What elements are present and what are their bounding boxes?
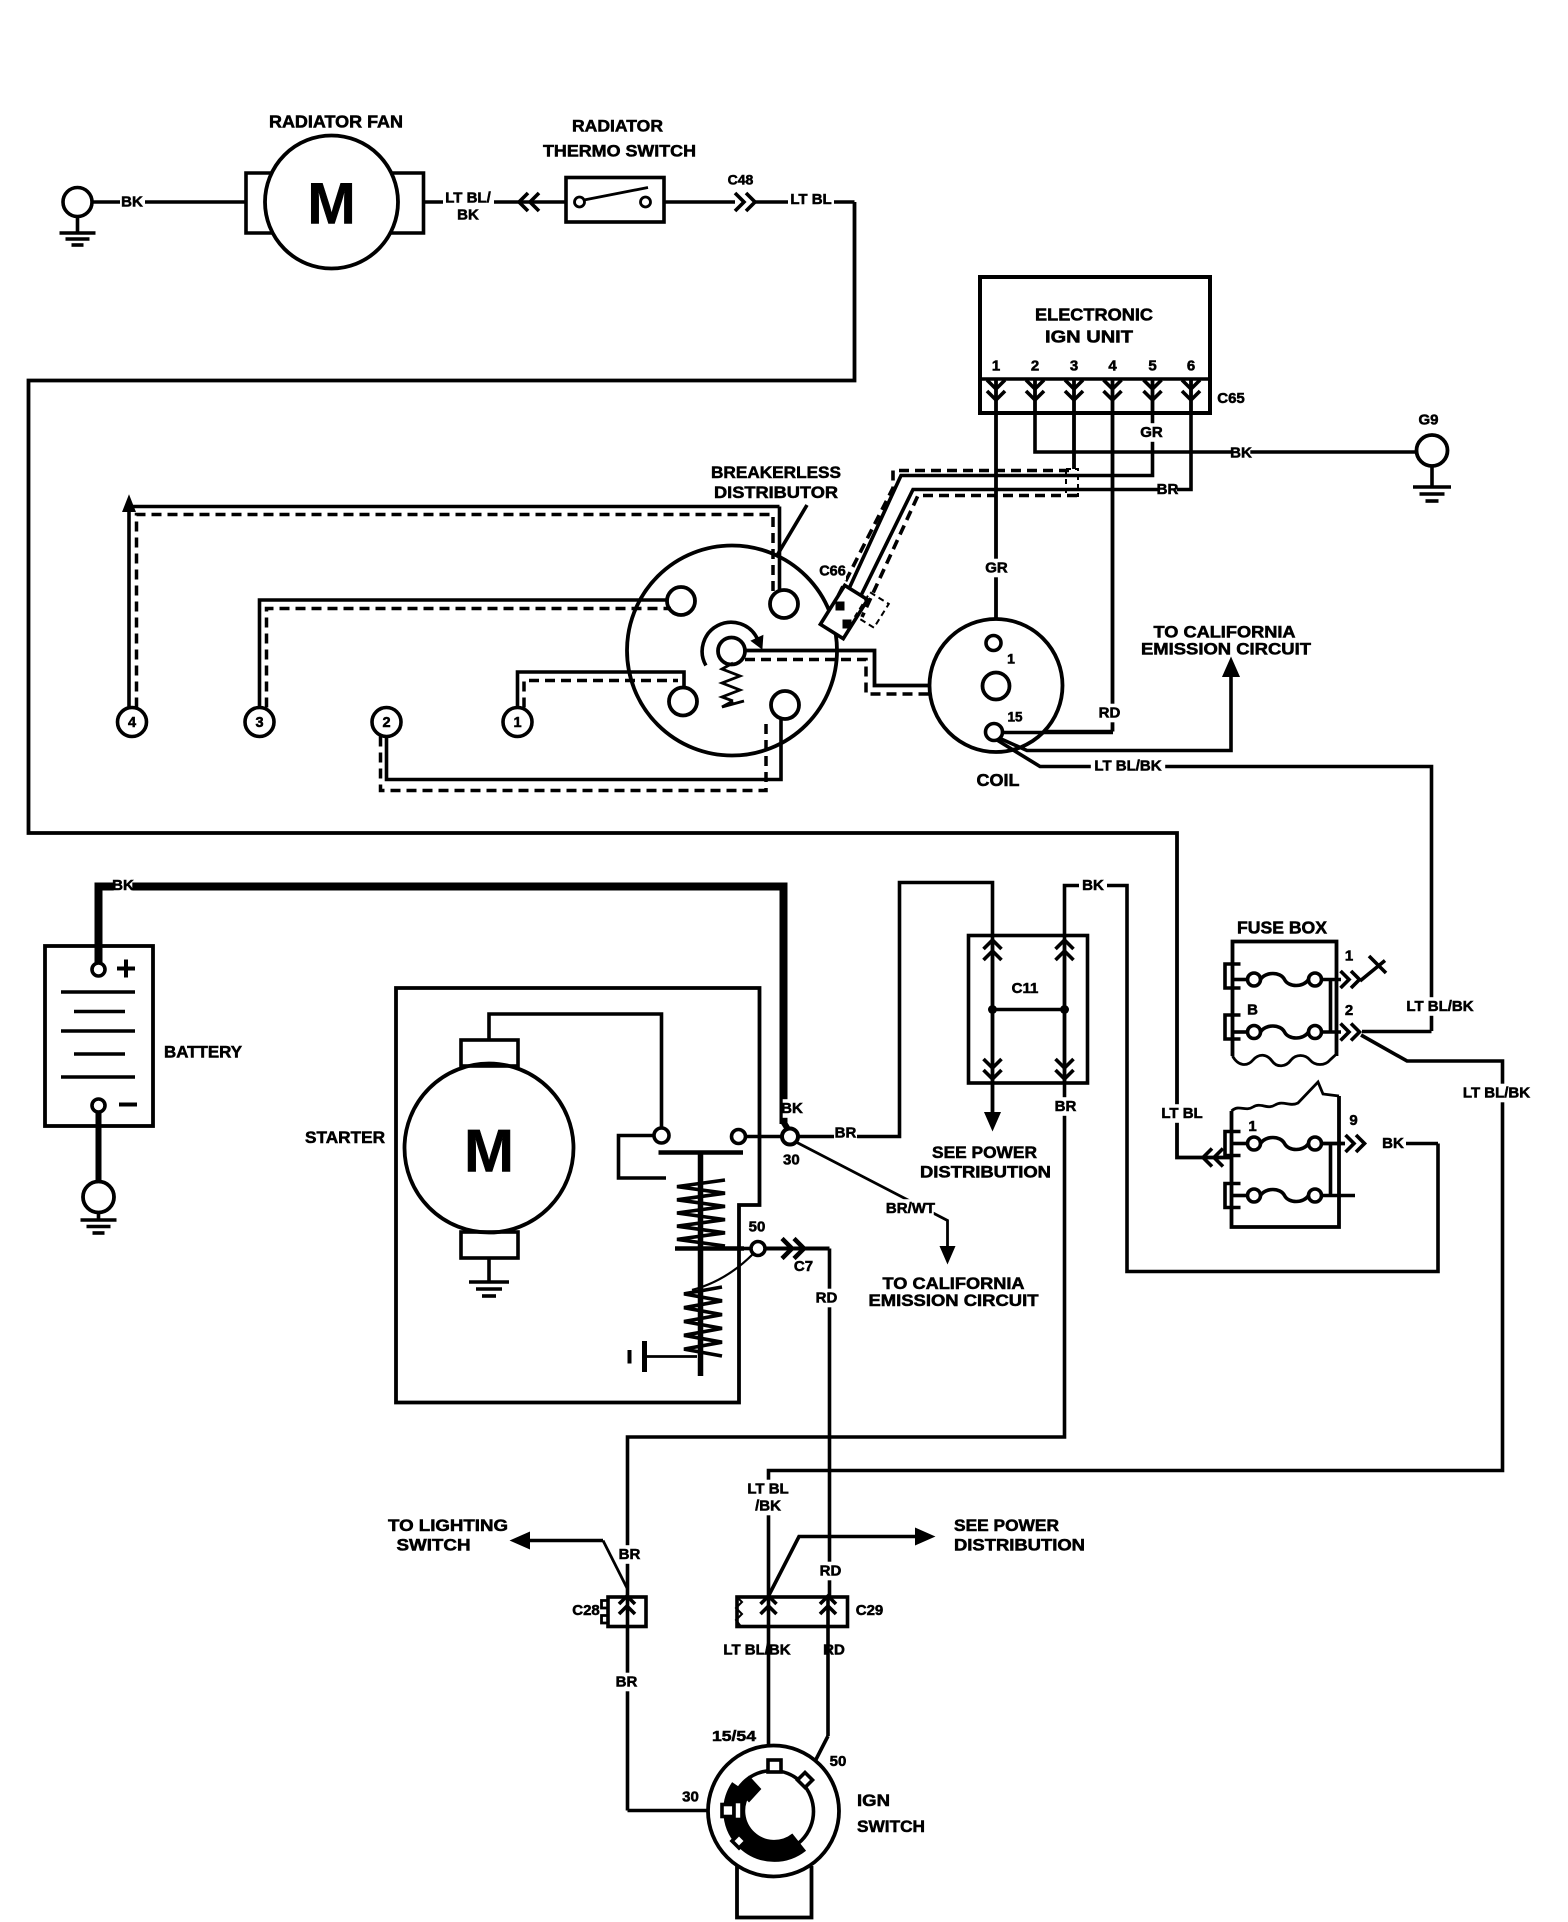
svg-text:LT BL: LT BL xyxy=(747,1481,788,1498)
svg-text:EMISSION CIRCUIT: EMISSION CIRCUIT xyxy=(1141,641,1311,659)
svg-text:SEE POWER: SEE POWER xyxy=(954,1517,1059,1535)
svg-text:BK: BK xyxy=(457,207,479,224)
svg-text:BK: BK xyxy=(121,194,143,211)
svg-text:GR: GR xyxy=(1140,424,1163,441)
svg-text:1: 1 xyxy=(1007,651,1015,667)
svg-text:C66: C66 xyxy=(819,564,846,580)
svg-text:SWITCH: SWITCH xyxy=(397,1537,471,1555)
svg-text:IGN UNIT: IGN UNIT xyxy=(1045,327,1133,347)
svg-text:DISTRIBUTOR: DISTRIBUTOR xyxy=(714,483,838,502)
svg-text:RADIATOR: RADIATOR xyxy=(572,117,663,136)
svg-text:/BK: /BK xyxy=(755,1498,781,1515)
svg-text:THERMO SWITCH: THERMO SWITCH xyxy=(543,142,696,161)
svg-text:LT BL/: LT BL/ xyxy=(445,190,491,207)
svg-text:C29: C29 xyxy=(856,1602,884,1619)
svg-text:30: 30 xyxy=(682,1789,699,1806)
svg-text:2: 2 xyxy=(1031,358,1039,375)
svg-text:RADIATOR FAN: RADIATOR FAN xyxy=(269,112,403,132)
svg-text:C7: C7 xyxy=(794,1258,813,1275)
svg-text:RD: RD xyxy=(820,1563,842,1580)
svg-text:3: 3 xyxy=(255,715,263,731)
svg-text:4: 4 xyxy=(1108,358,1117,375)
svg-text:SEE POWER: SEE POWER xyxy=(932,1144,1037,1162)
svg-text:BK: BK xyxy=(1382,1135,1404,1152)
svg-text:LT BL/BK: LT BL/BK xyxy=(1463,1085,1530,1102)
svg-text:C48: C48 xyxy=(728,172,754,188)
svg-text:B: B xyxy=(1247,1002,1258,1019)
svg-text:1: 1 xyxy=(1345,948,1353,965)
svg-text:BK: BK xyxy=(781,1100,803,1117)
svg-text:G9: G9 xyxy=(1418,412,1438,429)
svg-text:C65: C65 xyxy=(1217,390,1245,407)
svg-text:1: 1 xyxy=(513,715,521,731)
svg-text:M: M xyxy=(464,1118,514,1185)
svg-text:STARTER: STARTER xyxy=(305,1128,385,1147)
svg-text:RD: RD xyxy=(816,1290,838,1307)
svg-text:BK: BK xyxy=(112,877,134,894)
svg-text:RD: RD xyxy=(1099,705,1121,722)
svg-text:BR/WT: BR/WT xyxy=(886,1200,935,1217)
svg-text:3: 3 xyxy=(1070,358,1078,375)
svg-text:DISTRIBUTION: DISTRIBUTION xyxy=(954,1537,1085,1555)
svg-text:2: 2 xyxy=(1345,1002,1353,1019)
svg-text:4: 4 xyxy=(128,715,136,731)
svg-text:2: 2 xyxy=(382,715,390,731)
svg-text:IGN: IGN xyxy=(857,1791,890,1810)
svg-text:BK: BK xyxy=(1230,445,1252,462)
svg-text:50: 50 xyxy=(830,1753,847,1770)
svg-text:BR: BR xyxy=(616,1674,638,1691)
svg-text:BR: BR xyxy=(835,1125,857,1142)
svg-text:SWITCH: SWITCH xyxy=(857,1817,925,1836)
svg-text:TO CALIFORNIA: TO CALIFORNIA xyxy=(883,1275,1025,1293)
svg-text:M: M xyxy=(307,172,355,237)
svg-text:COIL: COIL xyxy=(977,770,1020,790)
svg-text:50: 50 xyxy=(749,1219,766,1236)
svg-text:9: 9 xyxy=(1349,1112,1357,1129)
svg-text:GR: GR xyxy=(985,560,1008,577)
svg-text:BREAKERLESS: BREAKERLESS xyxy=(711,463,841,482)
svg-text:30: 30 xyxy=(783,1152,800,1169)
svg-text:BR: BR xyxy=(1157,481,1179,498)
svg-text:15/54: 15/54 xyxy=(712,1728,757,1745)
svg-text:C11: C11 xyxy=(1012,980,1039,997)
svg-text:LT BL/BK: LT BL/BK xyxy=(723,1642,790,1659)
svg-text:BR: BR xyxy=(1055,1098,1077,1115)
svg-text:LT BL/BK: LT BL/BK xyxy=(1094,758,1161,775)
svg-text:BATTERY: BATTERY xyxy=(164,1043,243,1062)
svg-text:FUSE BOX: FUSE BOX xyxy=(1237,918,1327,938)
svg-text:ELECTRONIC: ELECTRONIC xyxy=(1035,305,1153,325)
svg-text:TO LIGHTING: TO LIGHTING xyxy=(388,1517,508,1535)
svg-text:BR: BR xyxy=(619,1546,641,1563)
svg-text:BK: BK xyxy=(1082,877,1104,894)
svg-text:6: 6 xyxy=(1187,358,1195,375)
svg-text:LT BL/BK: LT BL/BK xyxy=(1406,998,1473,1015)
svg-text:LT BL: LT BL xyxy=(1161,1105,1202,1122)
svg-text:LT BL: LT BL xyxy=(790,191,831,208)
svg-text:DISTRIBUTION: DISTRIBUTION xyxy=(920,1164,1051,1182)
svg-text:1: 1 xyxy=(1248,1118,1256,1135)
svg-text:15: 15 xyxy=(1007,710,1023,725)
svg-text:C28: C28 xyxy=(572,1602,600,1619)
svg-text:5: 5 xyxy=(1148,358,1156,375)
svg-text:TO CALIFORNIA: TO CALIFORNIA xyxy=(1154,624,1296,642)
svg-text:1: 1 xyxy=(992,358,1000,375)
svg-text:EMISSION CIRCUIT: EMISSION CIRCUIT xyxy=(869,1292,1039,1310)
